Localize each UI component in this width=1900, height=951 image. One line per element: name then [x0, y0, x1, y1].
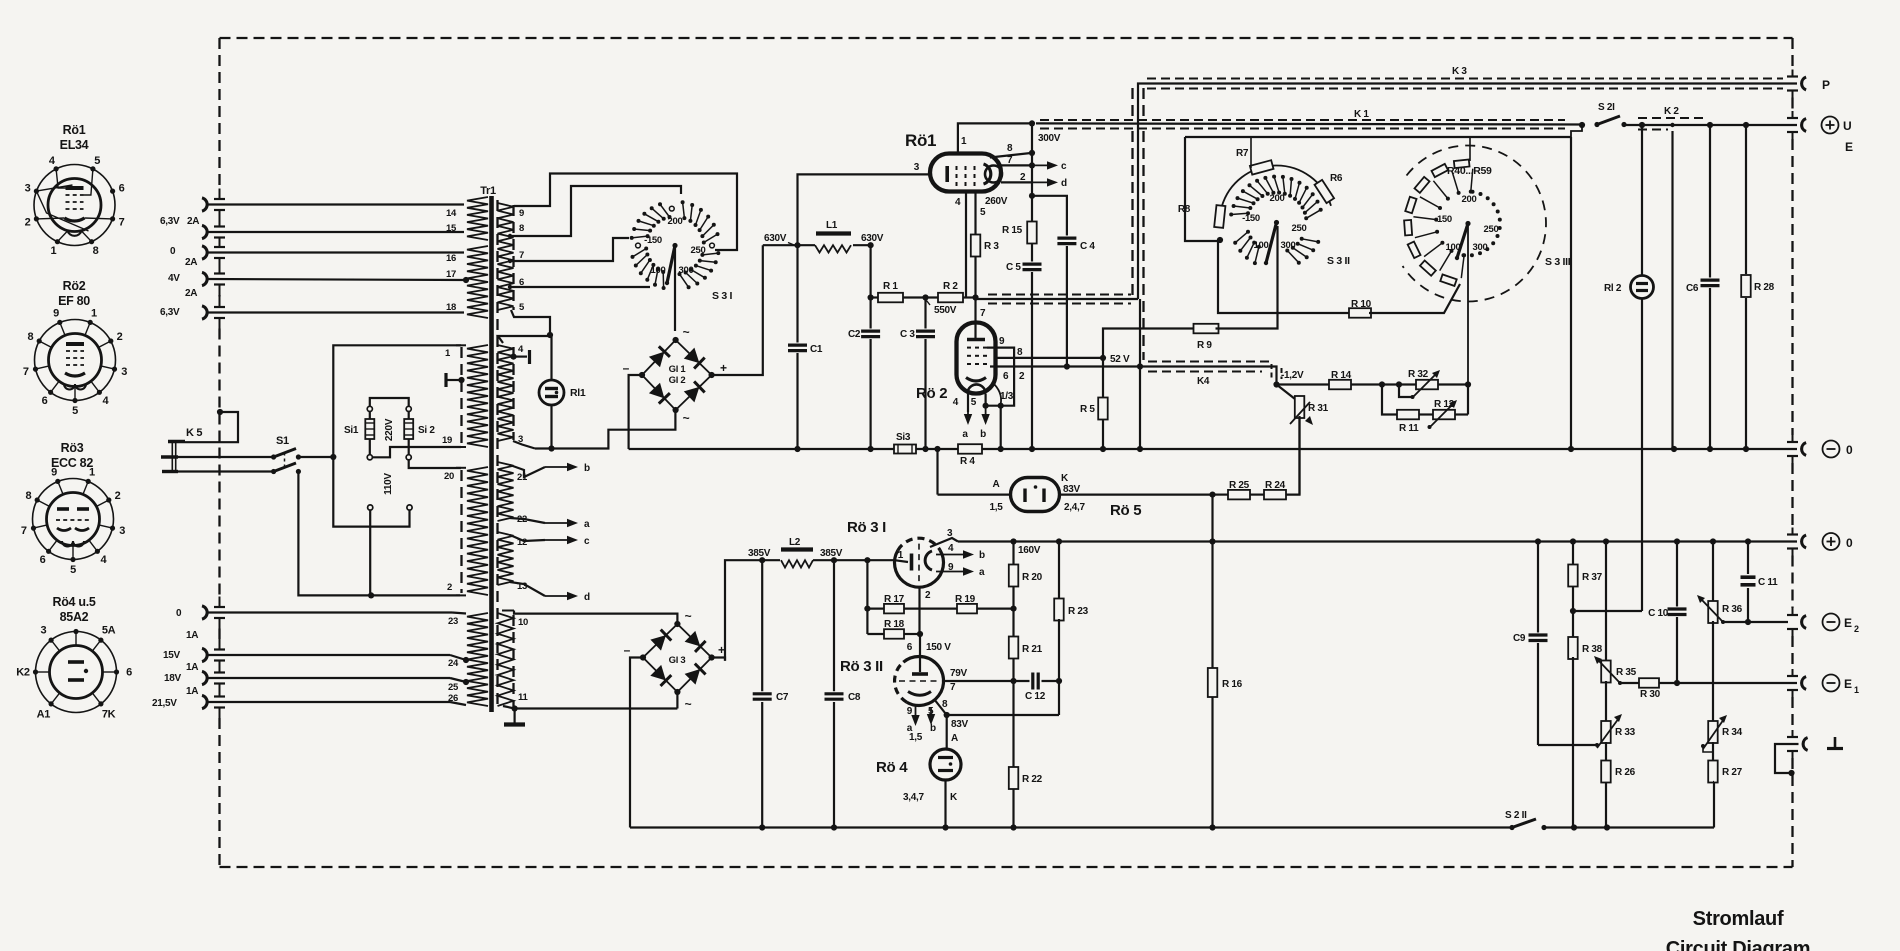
- Tr1 winding 21-22 (heater a/b): [498, 462, 591, 530]
- svg-text:3: 3: [914, 162, 920, 173]
- svg-text:E: E: [1844, 677, 1852, 691]
- svg-text:R 32: R 32: [1408, 369, 1429, 380]
- svg-text:6,3V: 6,3V: [160, 307, 180, 318]
- -83V rail: [630, 824, 1512, 830]
- svg-text:2,4,7: 2,4,7: [1064, 502, 1085, 513]
- svg-text:Si1: Si1: [344, 425, 359, 436]
- svg-text:R 16: R 16: [1222, 679, 1243, 690]
- svg-text:K 1: K 1: [1354, 109, 1369, 120]
- svg-text:300: 300: [679, 265, 694, 276]
- svg-text:C 11: C 11: [1758, 577, 1778, 588]
- svg-text:8: 8: [25, 490, 31, 502]
- tube socket diagram Rö4 u.5 85A2: [16, 595, 132, 720]
- shielded line K1 (300V to switch S2I): [1036, 109, 1584, 129]
- wire Tr1 tap 9 to S3I: [514, 174, 737, 251]
- resistor R16: [1208, 542, 1243, 828]
- svg-text:EL34: EL34: [60, 138, 89, 152]
- capacitor C7: [753, 560, 789, 827]
- svg-text:R 10: R 10: [1351, 299, 1372, 310]
- svg-text:R 30: R 30: [1640, 689, 1661, 700]
- screen border (dashed shield box): [214, 38, 1798, 867]
- svg-text:Rö 4: Rö 4: [876, 759, 908, 776]
- svg-text:R 22: R 22: [1022, 774, 1043, 785]
- svg-text:S 3 II: S 3 II: [1327, 255, 1350, 267]
- svg-text:630V: 630V: [764, 233, 787, 244]
- svg-text:b: b: [979, 550, 985, 561]
- svg-text:ECC 82: ECC 82: [51, 456, 93, 470]
- svg-text:S 2I: S 2I: [1598, 102, 1615, 113]
- svg-text:385V: 385V: [748, 548, 771, 559]
- svg-text:5A: 5A: [102, 625, 116, 637]
- svg-text:Rö 3 II: Rö 3 II: [840, 658, 883, 675]
- svg-text:Rl 2: Rl 2: [1604, 283, 1622, 294]
- wire Rö3I pin 2 to Rö3II anode: [920, 587, 932, 672]
- svg-text:Stromlauf: Stromlauf: [1693, 908, 1784, 930]
- svg-text:R 36: R 36: [1722, 604, 1743, 615]
- svg-text:10: 10: [518, 617, 528, 628]
- svg-text:Gl 3: Gl 3: [669, 655, 686, 666]
- svg-text:1/3: 1/3: [1000, 391, 1014, 402]
- svg-text:8: 8: [519, 223, 524, 234]
- resistor R5: [1080, 358, 1108, 449]
- svg-text:R6: R6: [1330, 173, 1343, 184]
- connector K5 (mains input): [161, 409, 274, 472]
- svg-text:d: d: [1061, 178, 1067, 189]
- svg-text:9: 9: [948, 562, 954, 573]
- wire Rö1 pin 8 (cathode) to 300V line: [990, 143, 1035, 158]
- wire R37 R38 node to Rl2: [1573, 610, 1642, 612]
- svg-text:9: 9: [907, 706, 913, 717]
- svg-text:3,4,7: 3,4,7: [903, 792, 924, 803]
- svg-text:11: 11: [518, 692, 528, 703]
- terminal -0: [1802, 441, 1853, 458]
- Rö3I heater arrows b a: [936, 543, 985, 578]
- svg-text:R 38: R 38: [1582, 644, 1603, 655]
- capacitor C6: [1686, 125, 1720, 449]
- potentiometer R34 and resistor R27: [1701, 715, 1743, 783]
- series regulator tube Rö1 (EL34): [905, 131, 1002, 192]
- svg-text:3: 3: [947, 528, 953, 539]
- svg-text:160V: 160V: [1018, 545, 1041, 556]
- svg-text:2A: 2A: [187, 216, 199, 227]
- svg-text:R 11: R 11: [1399, 423, 1419, 434]
- svg-text:K: K: [950, 792, 958, 803]
- svg-text:300: 300: [1281, 240, 1296, 251]
- svg-text:9: 9: [51, 467, 57, 479]
- svg-text:C2: C2: [848, 329, 861, 340]
- svg-text:14: 14: [446, 208, 457, 219]
- wire Rö2 pin 8 (52V node): [996, 347, 1130, 365]
- caption Stromlauf / Circuit Diagram: [1666, 908, 1810, 951]
- svg-text:a: a: [979, 567, 985, 578]
- svg-text:3: 3: [25, 182, 31, 194]
- svg-text:C1: C1: [810, 344, 823, 355]
- rectifier bridge Gl3: [624, 609, 725, 711]
- svg-text:L1: L1: [826, 220, 838, 231]
- svg-text:7: 7: [23, 366, 29, 378]
- Tr1 primary winding 20-2: [444, 467, 488, 595]
- wire Rö2 pin 9 / cathode 1-3 bracket: [983, 336, 1015, 409]
- svg-text:Rö3: Rö3: [61, 441, 84, 455]
- svg-text:R 14: R 14: [1331, 370, 1352, 381]
- svg-text:300V: 300V: [1038, 133, 1061, 144]
- svg-text:8: 8: [942, 699, 948, 710]
- rotary switch S3 I (AC tap selector): [630, 200, 733, 302]
- svg-text:4: 4: [948, 543, 954, 554]
- potentiometer R31: [1277, 385, 1329, 495]
- fuses Si1 Si2 with 220V link: [344, 398, 461, 468]
- wire S1 to transformer primary: [298, 345, 461, 598]
- svg-text:R 18: R 18: [884, 619, 905, 630]
- svg-text:7: 7: [21, 525, 27, 537]
- wire S3I wiper to rectifier: [674, 246, 676, 332]
- svg-text:17: 17: [446, 269, 456, 280]
- svg-text:b: b: [930, 723, 936, 734]
- svg-text:Rö4 u.5: Rö4 u.5: [52, 595, 95, 609]
- svg-text:Rö1: Rö1: [905, 131, 936, 150]
- capacitor C9: [1513, 542, 1599, 748]
- svg-text:EF 80: EF 80: [58, 294, 90, 308]
- svg-text:18: 18: [446, 302, 456, 313]
- svg-text:2A: 2A: [185, 257, 197, 268]
- svg-text:+: +: [720, 361, 727, 375]
- wire Rö1 pin 4 (g2) to 260V node: [955, 192, 966, 298]
- svg-text:9: 9: [519, 208, 524, 219]
- svg-text:1A: 1A: [186, 630, 198, 641]
- Tr1 winding 14-15 (6,3V heater): [446, 197, 488, 240]
- svg-text:3: 3: [40, 625, 46, 637]
- resistor R9 (52V to S3II wiper): [1103, 226, 1278, 358]
- svg-text:R 2: R 2: [943, 281, 958, 292]
- svg-text:Gl 2: Gl 2: [669, 375, 686, 386]
- error amplifier tube Rö3 I: [847, 519, 944, 587]
- svg-text:100: 100: [1254, 240, 1269, 251]
- svg-text:9: 9: [999, 336, 1005, 347]
- svg-text:7: 7: [980, 308, 986, 319]
- svg-text:b: b: [980, 429, 986, 440]
- svg-text:6: 6: [907, 642, 913, 653]
- resistors R1 R2 (550V node): [868, 245, 976, 316]
- svg-text:1: 1: [961, 136, 967, 147]
- svg-text:C8: C8: [848, 692, 861, 703]
- Rö1 heater pin 7 arrow c: [1001, 155, 1067, 172]
- svg-text:S 3 III: S 3 III: [1545, 256, 1571, 268]
- svg-text:5: 5: [928, 706, 934, 717]
- svg-text:Circuit Diagram: Circuit Diagram: [1666, 938, 1810, 951]
- svg-text:200: 200: [1270, 193, 1285, 204]
- svg-text:250: 250: [1484, 224, 1499, 235]
- svg-text:C6: C6: [1686, 283, 1699, 294]
- svg-text:300: 300: [1473, 242, 1488, 253]
- svg-text:~: ~: [683, 325, 690, 339]
- +160V line to terminal +0: [930, 528, 1797, 556]
- svg-text:-150: -150: [1242, 213, 1260, 224]
- capacitor C10: [1648, 542, 1686, 684]
- svg-text:79V: 79V: [950, 668, 968, 679]
- resistor R22: [1009, 681, 1043, 828]
- svg-text:1,5: 1,5: [989, 502, 1003, 513]
- resistors R17 R19: [864, 560, 1016, 634]
- svg-text:d: d: [584, 592, 590, 603]
- svg-text:5: 5: [72, 405, 78, 417]
- svg-text:K: K: [1061, 473, 1069, 484]
- svg-text:–: –: [624, 643, 631, 657]
- switch S2 II: [1505, 782, 1714, 831]
- wire Rö2 cathode to 0 rail: [1000, 406, 1002, 449]
- svg-text:C 5: C 5: [1006, 262, 1021, 273]
- svg-text:R 28: R 28: [1754, 282, 1775, 293]
- wire Rö3II pin 8 to R23: [934, 681, 1059, 718]
- svg-text:R7: R7: [1236, 148, 1249, 159]
- svg-text:6: 6: [42, 395, 48, 407]
- svg-text:C 4: C 4: [1080, 241, 1095, 252]
- svg-text:83V: 83V: [1063, 484, 1081, 495]
- svg-text:1: 1: [1854, 685, 1859, 695]
- svg-text:1: 1: [89, 467, 95, 479]
- wire Gl1 plus to 630V node: [712, 245, 763, 375]
- svg-text:2: 2: [1020, 172, 1026, 183]
- rotary switch S3 II with resistors R6 R7 R8: [1178, 137, 1350, 267]
- svg-text:Rö 3 I: Rö 3 I: [847, 519, 886, 536]
- svg-text:4V: 4V: [168, 273, 180, 284]
- svg-text:b: b: [584, 463, 590, 474]
- svg-text:K 3: K 3: [1452, 66, 1467, 77]
- svg-text:-150: -150: [1434, 214, 1452, 225]
- svg-text:K2: K2: [16, 667, 30, 679]
- svg-text:K 2: K 2: [1664, 106, 1679, 117]
- svg-text:8: 8: [1007, 143, 1013, 154]
- tube socket diagram Rö1 EL34: [25, 123, 125, 257]
- Rö2 heater arrows a b: [953, 394, 990, 441]
- svg-text:16: 16: [446, 253, 456, 264]
- Tr1 winding 4-3 with screen bar: [498, 344, 530, 445]
- capacitor C2: [848, 298, 880, 450]
- svg-text:550V: 550V: [934, 305, 957, 316]
- svg-text:E: E: [1845, 140, 1853, 154]
- terminal +U / E: [1802, 117, 1853, 155]
- resistor R11: [1382, 385, 1433, 435]
- svg-text:~: ~: [685, 697, 692, 711]
- svg-text:R 37: R 37: [1582, 572, 1603, 583]
- svg-text:6,3V: 6,3V: [160, 216, 180, 227]
- svg-text:S 3 I: S 3 I: [712, 290, 732, 302]
- svg-text:R 31: R 31: [1308, 403, 1329, 414]
- svg-text:R 35: R 35: [1616, 667, 1637, 678]
- svg-text:4: 4: [953, 397, 959, 408]
- choke L2 and 385V rail: [725, 537, 908, 661]
- terminal +0: [1802, 533, 1853, 550]
- svg-text:R40...R59: R40...R59: [1447, 165, 1492, 177]
- capacitor C11 (E2 line): [1741, 542, 1789, 626]
- tube socket diagram Rö3 ECC82: [21, 441, 125, 576]
- svg-text:0: 0: [170, 246, 176, 257]
- resistor R21: [1009, 609, 1043, 685]
- potentiometer R33 and resistor R26: [1597, 714, 1636, 828]
- heater supply terminals 6,3V / 0 / 4V / 6,3V: [160, 198, 469, 319]
- terminal chassis ground: [1775, 737, 1843, 776]
- svg-text:-150: -150: [644, 235, 662, 246]
- resistor R20: [1009, 542, 1043, 609]
- svg-text:R 21: R 21: [1022, 644, 1043, 655]
- svg-text:25: 25: [448, 682, 459, 693]
- wire Rö5 node to +160V line: [1211, 495, 1213, 542]
- svg-text:2: 2: [117, 331, 123, 343]
- svg-text:R 9: R 9: [1197, 340, 1212, 351]
- svg-text:5: 5: [971, 397, 977, 408]
- svg-text:26: 26: [448, 693, 458, 704]
- svg-text:R 15: R 15: [1002, 225, 1023, 236]
- resistor R38: [1568, 611, 1602, 828]
- svg-text:-1,2V: -1,2V: [1281, 370, 1304, 381]
- wire frame S3II S3III feed: [1185, 137, 1571, 449]
- svg-text:Rl1: Rl1: [570, 387, 586, 399]
- rectifier bridge Gl1 Gl2: [623, 325, 727, 425]
- resistor R28: [1741, 125, 1774, 449]
- svg-text:R 12: R 12: [1434, 399, 1455, 410]
- svg-text:P: P: [1822, 78, 1830, 92]
- LT terminals 0 / 15V / 18V / 21,5V: [152, 606, 469, 709]
- svg-text:15V: 15V: [163, 650, 181, 661]
- capacitor C3: [900, 298, 935, 450]
- svg-text:200: 200: [1462, 194, 1477, 205]
- Tr1 winding 23-24-25-26 (LT): [448, 613, 488, 706]
- wire Tr1 tap 7 to S3I: [511, 238, 629, 261]
- svg-text:20: 20: [444, 471, 454, 482]
- svg-text:21: 21: [517, 472, 528, 483]
- svg-text:110V: 110V: [383, 473, 394, 495]
- potentiometer R35: [1594, 542, 1637, 723]
- svg-text:K4: K4: [1197, 376, 1210, 387]
- svg-text:A: A: [993, 479, 1000, 490]
- svg-text:8: 8: [1017, 347, 1023, 358]
- svg-text:2: 2: [1019, 371, 1025, 382]
- svg-text:R 27: R 27: [1722, 767, 1743, 778]
- Tr1 winding 12-13 (heater c/d): [498, 532, 591, 603]
- wire Tr1 tap 8 to S3I: [511, 186, 681, 236]
- svg-text:R8: R8: [1178, 204, 1191, 215]
- terminal -E2: [1802, 614, 1859, 635]
- svg-text:23: 23: [448, 616, 458, 627]
- svg-text:1: 1: [898, 550, 904, 561]
- terminal P: [1802, 77, 1830, 92]
- stabilizer lamp Rl2: [1604, 125, 1654, 611]
- svg-text:150 V: 150 V: [926, 642, 951, 653]
- svg-text:S 2 II: S 2 II: [1505, 810, 1527, 821]
- svg-text:1,5: 1,5: [909, 732, 923, 743]
- svg-text:7: 7: [950, 682, 956, 693]
- switch S2 I: [1571, 102, 1797, 137]
- wire Gl1 minus to 0 rail: [629, 375, 642, 449]
- svg-text:R 1: R 1: [883, 281, 898, 292]
- ground (chassis) at winding 11: [504, 709, 525, 725]
- node 630V: [763, 233, 884, 248]
- wire Tr1 tap 3 to rectifier AC: [513, 410, 675, 452]
- pilot lamp Rl1: [539, 336, 586, 449]
- potentiometer R32: [1399, 369, 1471, 399]
- svg-text:A: A: [951, 733, 958, 744]
- svg-text:R 33: R 33: [1615, 727, 1636, 738]
- svg-text:15: 15: [446, 223, 457, 234]
- svg-text:260V: 260V: [985, 196, 1008, 207]
- choke L1: [815, 220, 851, 253]
- svg-text:Tr1: Tr1: [480, 185, 496, 197]
- wire Rö1 anode (pin 3) to 630V: [798, 162, 931, 245]
- svg-text:100: 100: [651, 265, 666, 276]
- capacitor C8: [825, 560, 861, 827]
- Tr1 primary winding 1-19 with screen tap: [442, 345, 488, 447]
- svg-text:S1: S1: [276, 435, 289, 447]
- svg-text:R 25: R 25: [1229, 480, 1250, 491]
- svg-text:19: 19: [442, 435, 452, 446]
- svg-text:3: 3: [121, 366, 127, 378]
- rotary switch S3 III with resistor chain R40...R59: [1403, 137, 1571, 385]
- svg-text:C 12: C 12: [1025, 691, 1046, 702]
- svg-text:c: c: [1061, 161, 1067, 172]
- svg-text:–: –: [623, 361, 630, 375]
- svg-text:250: 250: [691, 245, 706, 256]
- svg-text:18V: 18V: [164, 673, 182, 684]
- svg-text:R 23: R 23: [1068, 606, 1089, 617]
- resistor R18: [867, 619, 923, 639]
- 110V selector contacts: [368, 473, 413, 596]
- capacitor C1: [788, 245, 823, 449]
- svg-text:200: 200: [668, 216, 683, 227]
- svg-text:83V: 83V: [951, 719, 969, 730]
- Tr1 winding 10-11 (385V supply): [498, 611, 678, 712]
- resistor R3 (Rö1 grid): [971, 192, 1008, 301]
- tube socket diagram Rö2 EF80: [23, 279, 127, 417]
- svg-text:5: 5: [980, 207, 986, 218]
- reference tube Rö5 (85A2): [938, 449, 1142, 519]
- wire Rö1 pin 1 to 300V node: [958, 120, 1035, 153]
- svg-text:1A: 1A: [186, 662, 198, 673]
- svg-text:9: 9: [53, 308, 59, 320]
- svg-text:~: ~: [685, 609, 692, 623]
- svg-text:Si3: Si3: [896, 432, 911, 443]
- svg-text:2: 2: [925, 590, 931, 601]
- svg-text:7: 7: [119, 217, 125, 229]
- svg-text:C9: C9: [1513, 633, 1526, 644]
- svg-text:7: 7: [1007, 155, 1013, 166]
- svg-text:6: 6: [1003, 371, 1009, 382]
- Rö3II heater arrows: [907, 706, 936, 743]
- svg-text:R 4: R 4: [960, 456, 975, 467]
- svg-text:5: 5: [70, 564, 76, 576]
- svg-text:6: 6: [40, 554, 46, 566]
- Tr1 winding 16-17-18 (0/4V/6,3V): [446, 246, 488, 318]
- svg-text:R 5: R 5: [1080, 404, 1095, 415]
- wire Rö2 grid pin 7 to 260V: [976, 298, 987, 340]
- svg-text:3: 3: [119, 525, 125, 537]
- svg-text:1A: 1A: [186, 686, 198, 697]
- svg-text:+: +: [718, 643, 725, 657]
- resistor R10 (S3II to S3III chain): [1218, 241, 1460, 318]
- wire Gl3 plus to 385V: [712, 658, 725, 661]
- svg-text:0: 0: [1846, 536, 1853, 550]
- shielded line K4 (grid line): [1140, 362, 1282, 388]
- svg-text:L2: L2: [789, 537, 801, 548]
- potentiometer R36 (E2): [1697, 542, 1748, 723]
- svg-text:Rö 5: Rö 5: [1110, 502, 1141, 519]
- svg-text:Rö 2: Rö 2: [916, 385, 947, 402]
- svg-text:a: a: [962, 429, 968, 440]
- amplifier tube Rö2 (EF80): [916, 323, 996, 403]
- svg-text:7: 7: [519, 250, 524, 261]
- svg-text:2: 2: [25, 217, 31, 229]
- svg-text:R 19: R 19: [955, 594, 976, 605]
- svg-text:Rö1: Rö1: [63, 123, 86, 137]
- svg-text:100: 100: [1446, 242, 1461, 253]
